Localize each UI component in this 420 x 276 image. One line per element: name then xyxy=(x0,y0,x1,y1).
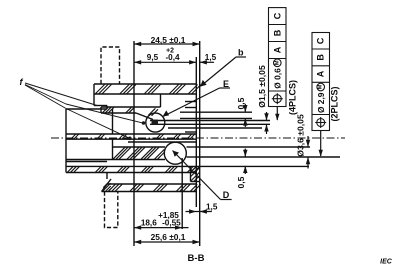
feature control frame 2 (2 PLCS) xyxy=(312,33,330,131)
extension line left shared xyxy=(133,41,135,246)
hole E section fill xyxy=(152,120,159,125)
extension line 18,6 right xyxy=(181,158,183,229)
svg-text:Ø 2,9: Ø 2,9 xyxy=(316,92,326,113)
center pin strip xyxy=(71,134,195,139)
flange bore end wall lower xyxy=(112,139,114,159)
svg-text:B: B xyxy=(272,29,282,36)
svg-text:B: B xyxy=(316,54,326,61)
dimension 9,5 +2/-0,4 xyxy=(134,60,196,64)
svg-text:A: A xyxy=(272,46,282,53)
top band bottom line xyxy=(94,93,196,95)
dimension 0,5 upper right xyxy=(243,104,247,127)
svg-text:25,6 ±0,1: 25,6 ±0,1 xyxy=(151,232,186,242)
dimension 25,6 ±0,1 xyxy=(134,240,200,244)
body top-left corner step xyxy=(93,84,95,106)
svg-text:A: A xyxy=(316,70,326,77)
body top edge xyxy=(94,83,196,85)
right face inner edge / extension xyxy=(195,57,197,207)
dimension 24,5 ±0,1 xyxy=(134,42,200,46)
svg-text:B-B: B-B xyxy=(188,253,205,264)
right interior step stubs xyxy=(185,101,196,103)
flange bore end wall upper xyxy=(112,109,114,134)
dimension 1,5 bottom right xyxy=(186,209,212,213)
svg-text:b: b xyxy=(238,48,244,58)
svg-text:1,5: 1,5 xyxy=(206,203,218,212)
svg-text:9,5: 9,5 xyxy=(147,53,159,62)
bore step line y128 xyxy=(168,127,262,129)
svg-text:f: f xyxy=(20,77,24,87)
svg-text:M: M xyxy=(318,84,324,89)
flange inner bottom step xyxy=(66,161,107,163)
svg-text:24,5 ±0,1: 24,5 ±0,1 xyxy=(151,35,186,45)
svg-text:0,5: 0,5 xyxy=(236,176,246,188)
svg-text:-0,4: -0,4 xyxy=(165,53,180,62)
detail circle D xyxy=(164,142,186,164)
bore line below pin xyxy=(128,141,196,143)
bottom-right step block xyxy=(191,167,200,182)
hole D lines extended right xyxy=(196,146,310,148)
dimension ø1,5 ±0,05 xyxy=(264,112,268,134)
band A top extended right xyxy=(196,165,309,167)
svg-text:Ø1,5 ±0,05: Ø1,5 ±0,05 xyxy=(257,65,267,108)
taper line into hole E xyxy=(136,113,153,120)
svg-text:18,6: 18,6 xyxy=(141,219,157,228)
flange top edge xyxy=(66,108,107,110)
right face outer edge / extension xyxy=(199,41,201,246)
dimension 0,5 lower right xyxy=(243,149,247,175)
bottom band B xyxy=(109,184,191,191)
svg-text:M: M xyxy=(274,60,280,65)
svg-text:0,5: 0,5 xyxy=(236,97,246,109)
dimension ø3,6 ±0,05 xyxy=(306,136,310,169)
svg-text:-0,55: -0,55 xyxy=(162,219,181,228)
svg-text:IEC: IEC xyxy=(380,259,393,266)
svg-text:C: C xyxy=(316,37,326,44)
hidden slot top (dashed) xyxy=(101,47,120,84)
svg-text:(4PLCS): (4PLCS) xyxy=(288,80,298,115)
detail circle E xyxy=(146,113,165,132)
hole E lines extended right xyxy=(196,120,270,122)
hidden slot bottom (dashed) xyxy=(105,192,118,228)
bottom band A xyxy=(68,167,200,172)
dimension 18,6 +1,85/-0,55 xyxy=(134,225,189,229)
svg-text:Ø3,6 ±0,05: Ø3,6 ±0,05 xyxy=(296,114,306,157)
hole E bore lines xyxy=(150,120,196,122)
hole D bore lines xyxy=(187,146,197,148)
bottom-left chamfer xyxy=(102,179,112,192)
flange left edge xyxy=(65,109,67,173)
svg-text:(2PLCS): (2PLCS) xyxy=(330,86,340,121)
feature control frame 1 (4 PLCS) xyxy=(269,8,287,107)
lower inner band (insulator) xyxy=(113,147,165,159)
dimension 1,5 top right xyxy=(200,60,214,64)
bore step lines to 0,5 dim xyxy=(180,111,252,113)
top hatch band xyxy=(96,85,186,94)
svg-text:Ø 0,6: Ø 0,6 xyxy=(273,68,283,89)
svg-text:C: C xyxy=(272,12,282,19)
inner band upper (insulator) xyxy=(103,107,159,116)
left step below flange xyxy=(106,173,108,180)
svg-text:D: D xyxy=(223,190,230,200)
svg-text:1,5: 1,5 xyxy=(205,53,217,62)
centerline main axis xyxy=(51,137,345,139)
